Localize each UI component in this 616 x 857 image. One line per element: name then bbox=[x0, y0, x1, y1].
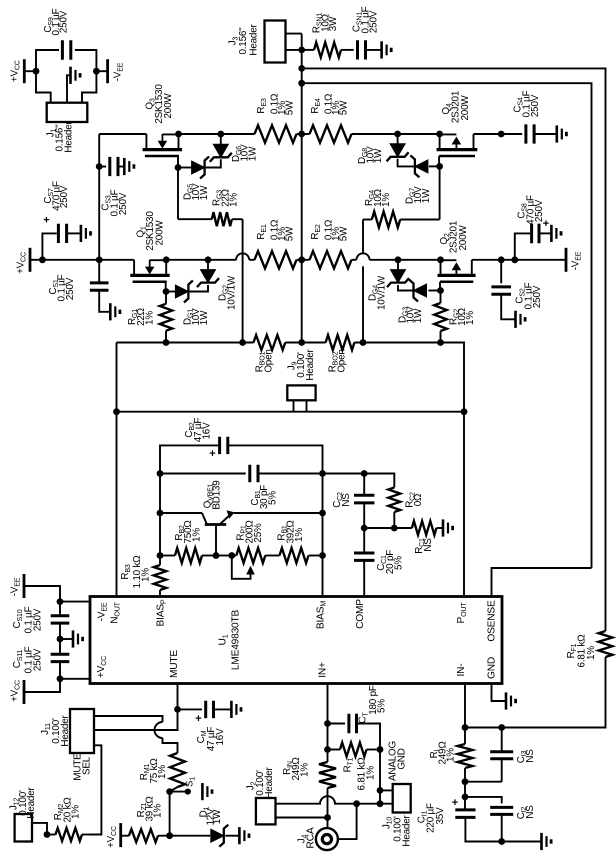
resistor RG2 bbox=[440, 291, 442, 304]
wire DG3-DG4 link bbox=[398, 285, 414, 291]
svg-text:250V: 250V bbox=[33, 648, 44, 671]
svg-text:0Ω: 0Ω bbox=[413, 494, 424, 506]
node CS2 column bbox=[498, 256, 505, 263]
node RC2 bottom bbox=[391, 525, 398, 532]
svg-text:NS: NS bbox=[423, 538, 434, 552]
wire J11 pin3 to RM2 bbox=[90, 745, 101, 834]
node RM1 bottom bbox=[166, 788, 173, 795]
capacitor CS9 bbox=[62, 40, 70, 60]
capacitor CS3 bbox=[110, 157, 118, 176]
svg-text:Header: Header bbox=[26, 787, 37, 819]
ground CI row bbox=[542, 833, 552, 850]
node +VCC/CS9 left bbox=[33, 68, 40, 75]
svg-text:1%: 1% bbox=[294, 528, 305, 542]
capacitor CS8 470uF bbox=[532, 224, 539, 244]
node Q4 gate / DG7 bbox=[436, 163, 443, 170]
node -VEE/CS9 right bbox=[93, 68, 100, 75]
svg-text:Header: Header bbox=[402, 815, 413, 847]
node feedback/IN- bbox=[462, 724, 469, 731]
svg-text:+: + bbox=[209, 448, 215, 460]
power terminal +VCC (rail) bbox=[29, 248, 32, 272]
capacitor CS1 bbox=[90, 283, 109, 290]
resistor RB3 1.10k bbox=[159, 556, 161, 566]
ground CS7 bbox=[81, 225, 91, 242]
header J9 bbox=[287, 385, 315, 400]
resistor RB2 750ohm bbox=[160, 555, 175, 557]
zener DG8 bbox=[387, 144, 409, 162]
wire Q2 drain to -VEE bbox=[472, 259, 566, 261]
wire RCA sleeve return bbox=[338, 804, 357, 839]
ground CS4 bbox=[557, 125, 567, 142]
wire J2 lower stub bbox=[276, 817, 328, 819]
wire RG3 column to bias rail bbox=[242, 219, 244, 342]
node gate column bottom bbox=[360, 339, 367, 346]
svg-text:Open: Open bbox=[337, 349, 348, 372]
svg-text:250V: 250V bbox=[59, 185, 70, 208]
wire comp row bbox=[364, 527, 412, 529]
connector J4 RCA bbox=[316, 828, 338, 850]
wire mid to ground bbox=[60, 638, 73, 640]
node output RE3/RE4 bbox=[298, 131, 305, 138]
svg-text:200W: 200W bbox=[458, 225, 469, 251]
switch S1 bbox=[170, 791, 186, 793]
wire J1 pin1 bbox=[36, 71, 51, 103]
header J1 bbox=[47, 103, 88, 122]
svg-text:25%: 25% bbox=[253, 523, 264, 543]
wire Q3 source to RE3 bbox=[179, 133, 255, 135]
wire J10 upper stub bbox=[380, 789, 393, 791]
node CS8 tap bbox=[511, 256, 518, 263]
wire CI3 bottom row bbox=[465, 781, 502, 783]
node bias rail center bbox=[298, 339, 305, 346]
potentiometer RP1 200ohm bbox=[232, 555, 237, 557]
wire output column bbox=[301, 34, 303, 343]
capacitor CS7 470uF bbox=[58, 224, 66, 243]
node CC2 top bbox=[361, 470, 368, 477]
svg-text:GND: GND bbox=[487, 657, 498, 679]
transistor Q1 2SK1530 bbox=[130, 260, 169, 282]
node +VCC pin bbox=[57, 675, 64, 682]
resistor RBO2 Open bbox=[302, 342, 326, 344]
wire CS3/Q3 drain column bbox=[98, 134, 100, 260]
wire CB1 row left bbox=[160, 473, 246, 475]
wire RI to CI1 node bbox=[464, 782, 466, 797]
wire BIASP column upper bbox=[160, 445, 220, 555]
node RG3 column bottom bbox=[239, 339, 246, 346]
power terminal +VCC (mute) bbox=[119, 823, 122, 847]
svg-text:1%: 1% bbox=[141, 568, 152, 582]
resistor RSN1 10ohm 3W bbox=[302, 49, 314, 51]
svg-text:10V/1W: 10V/1W bbox=[377, 275, 388, 310]
wire CB1 row to CC2/RC2 bbox=[323, 474, 395, 488]
node output row1 bbox=[298, 65, 305, 72]
wire IN+ column bbox=[327, 684, 329, 763]
wire CS7 leg bbox=[42, 233, 56, 259]
svg-text:250V: 250V bbox=[59, 10, 70, 33]
wire Q4 drain to CS4 node bbox=[474, 133, 502, 135]
svg-text:250V: 250V bbox=[65, 277, 76, 300]
node RT1 right bbox=[377, 746, 384, 753]
svg-text:250V: 250V bbox=[369, 10, 380, 33]
wire analog-gnd column bbox=[379, 750, 381, 804]
svg-text:1W: 1W bbox=[199, 310, 210, 325]
wire CC1 to COMP pin bbox=[363, 560, 365, 596]
wire J3 pin1 stub bbox=[286, 33, 302, 35]
wire CB1 row right bbox=[258, 473, 323, 475]
capacitor CS10 bbox=[59, 602, 61, 616]
svg-text:250V: 250V bbox=[532, 285, 543, 308]
transistor Q2 2SJ201 bbox=[438, 260, 476, 282]
node +VCC/CS1 column bbox=[96, 256, 103, 263]
svg-text:1%: 1% bbox=[586, 646, 597, 660]
wire CS2 leg bbox=[500, 260, 502, 284]
wire QVBE1 emitter row bbox=[234, 512, 323, 514]
capacitor CB1 30pF bbox=[250, 465, 258, 482]
svg-text:1%: 1% bbox=[366, 766, 377, 780]
wire Q3 drain feed bbox=[99, 133, 146, 135]
wire CS1 to ground bbox=[99, 290, 110, 312]
svg-text:35V: 35V bbox=[435, 807, 446, 825]
zener DG3 bbox=[428, 290, 440, 292]
wire CT to column right bbox=[357, 724, 380, 750]
transistor QVBE1 BD139 bbox=[160, 510, 235, 555]
node POUT rail bbox=[461, 408, 468, 415]
wire DG7-DG8 link bbox=[398, 159, 415, 167]
node RG2 bottom bbox=[437, 339, 444, 346]
zener DG5 bbox=[178, 167, 192, 169]
svg-text:BD139: BD139 bbox=[212, 480, 223, 510]
node CS3 tap bbox=[96, 163, 103, 170]
header J12 bbox=[15, 814, 32, 842]
svg-text:+: + bbox=[452, 797, 458, 809]
node CS4 column top bbox=[498, 131, 505, 138]
wire CS2 to ground bbox=[501, 294, 515, 319]
wire CT row bbox=[328, 723, 346, 725]
wire Q3 gate lead bbox=[177, 156, 179, 168]
wire OSENSE bbox=[492, 568, 592, 597]
svg-text:1%: 1% bbox=[71, 805, 82, 819]
wire output row1 to outer rail bbox=[302, 68, 606, 631]
svg-text:5%: 5% bbox=[394, 556, 405, 570]
svg-text:1%: 1% bbox=[300, 763, 311, 777]
node output RE1/RE2 bbox=[298, 256, 305, 263]
wire NOUT column bbox=[116, 343, 118, 597]
svg-text:250V: 250V bbox=[118, 192, 129, 215]
wire Q1 gate lead bbox=[165, 282, 167, 292]
power terminal +VCC (J1 cluster) bbox=[23, 59, 26, 83]
svg-text:1%: 1% bbox=[229, 193, 240, 207]
svg-text:1%: 1% bbox=[145, 311, 156, 325]
wire CS11 to +VCC node bbox=[24, 662, 60, 692]
ground CS8 bbox=[551, 225, 561, 242]
svg-text:1%: 1% bbox=[446, 748, 457, 762]
node DG2 top bbox=[205, 256, 212, 263]
wire CS3 leg bbox=[99, 166, 106, 168]
node emitter/BIASM bbox=[319, 510, 326, 517]
svg-text:1%: 1% bbox=[381, 193, 392, 207]
zener D1 12V bbox=[170, 835, 211, 837]
wire RE4 to Q4 bbox=[352, 133, 440, 135]
svg-text:1W: 1W bbox=[421, 188, 432, 203]
resistor RT1 6.81k bbox=[328, 749, 341, 751]
node CB1 right / BIASM bbox=[319, 470, 326, 477]
wire DG5-DG6 link bbox=[205, 159, 221, 167]
wire CSN1 to ground bbox=[366, 49, 382, 51]
zener DG6 bbox=[210, 144, 232, 162]
resistor RG3 bbox=[178, 218, 212, 220]
wire J1 pin3 bbox=[82, 71, 96, 103]
wire J2 upper stub bbox=[276, 803, 322, 805]
node J10 upper bbox=[377, 787, 384, 794]
wire Q3 gate column bbox=[177, 168, 179, 220]
hop RE1 row over RG3 column bbox=[236, 253, 249, 259]
header J11 bbox=[70, 709, 94, 753]
node CB1 left bbox=[157, 470, 164, 477]
svg-text:Header: Header bbox=[249, 24, 260, 56]
wire -VEE stub bbox=[96, 70, 107, 72]
wire GND pin bbox=[492, 684, 507, 702]
node RI bottom bbox=[462, 778, 469, 785]
node supply mid bbox=[57, 636, 64, 643]
resistor RM2 20k bbox=[56, 828, 83, 841]
resistor RIN 249ohm bbox=[319, 762, 336, 788]
node Q2 source bbox=[437, 256, 444, 263]
resistor RG1 bbox=[165, 292, 167, 304]
header J2 bbox=[256, 798, 276, 824]
svg-text:COMP: COMP bbox=[355, 599, 366, 629]
ground RC1 bbox=[443, 519, 453, 536]
power terminal +VCC (U1) bbox=[23, 680, 26, 704]
svg-text:1%: 1% bbox=[465, 311, 476, 325]
wire CS7 to ground bbox=[67, 232, 81, 234]
capacitor CC1 20pF bbox=[363, 528, 365, 553]
node MUTE/CM bbox=[174, 706, 181, 713]
ground D1 bbox=[239, 827, 249, 844]
capacitor CC2 NS bbox=[363, 474, 365, 496]
svg-text:SEL: SEL bbox=[82, 756, 93, 775]
svg-text:1%: 1% bbox=[157, 765, 168, 779]
header J3 bbox=[265, 21, 286, 63]
wire MUTE pin column bbox=[94, 684, 178, 731]
resistor RC1 NS bbox=[412, 521, 437, 535]
node -VEE pin bbox=[57, 598, 64, 605]
wire J3 pin2 stub bbox=[286, 49, 302, 51]
ground CS3 bbox=[124, 158, 134, 175]
wire Q4 gate lead bbox=[438, 156, 440, 166]
wiper RP1 bbox=[232, 556, 251, 579]
svg-text:Header: Header bbox=[60, 715, 71, 747]
wire +VCC rail bbox=[30, 259, 134, 261]
wire CB2 to BIASM column bbox=[228, 445, 323, 596]
wire CI2 top row bbox=[465, 797, 502, 804]
node CC1/CC2 junction bbox=[361, 525, 368, 532]
node RT1 left bbox=[324, 746, 331, 753]
svg-text:5W: 5W bbox=[285, 226, 296, 241]
resistor RBO1 Open bbox=[254, 335, 286, 350]
ground U1 GND bbox=[506, 692, 516, 709]
wire CS9 left leg bbox=[36, 50, 59, 71]
header J10 bbox=[393, 784, 411, 813]
svg-text:RCA: RCA bbox=[306, 827, 317, 849]
node Q3 gate / DG5 bbox=[175, 164, 182, 171]
node CS7 tap bbox=[39, 256, 46, 263]
node J2/RCA pin bbox=[324, 814, 331, 821]
ground (J1 cluster) bbox=[71, 67, 81, 84]
resistor RE1 0.1ohm bbox=[255, 251, 297, 268]
power terminal -VEE (J1 cluster) bbox=[106, 59, 109, 83]
capacitor CI2 NS bbox=[490, 807, 513, 814]
node CI1 top bbox=[462, 794, 469, 801]
resistor RC2 0ohm bbox=[388, 488, 400, 513]
svg-text:+: + bbox=[43, 215, 49, 227]
resistor RM1 75k bbox=[170, 753, 185, 787]
wire RF1 to feedback row bbox=[465, 657, 606, 728]
svg-text:Header: Header bbox=[64, 121, 75, 153]
resistor RE2 0.1ohm bbox=[302, 259, 310, 261]
wire NOUT-POUT rail bbox=[117, 411, 465, 413]
wire RE2 to Q2 bbox=[370, 259, 441, 261]
wire gate column right bbox=[362, 220, 364, 254]
wire -VEE pin bbox=[60, 601, 90, 603]
resistor RZ1 39k bbox=[121, 835, 129, 837]
ground CS10/CS11 bbox=[73, 630, 83, 647]
svg-text:1%: 1% bbox=[153, 804, 164, 818]
svg-text:NS: NS bbox=[525, 749, 536, 763]
wire J11 pin1 to RM1 bbox=[94, 716, 163, 722]
node Q1 gate / DG1 / RG1 bbox=[163, 288, 170, 295]
svg-text:250V: 250V bbox=[530, 94, 541, 117]
power terminal -VEE (U1) bbox=[23, 574, 26, 598]
wire CS9 right leg bbox=[75, 50, 97, 71]
svg-text:+: + bbox=[195, 713, 201, 725]
wire RM1 node to RZ1 row bbox=[169, 792, 171, 836]
zener DG1 bbox=[166, 291, 175, 293]
node J12/RM2 bbox=[44, 831, 51, 838]
svg-text:1W: 1W bbox=[413, 308, 424, 323]
capacitor CM 47uF bbox=[178, 708, 203, 710]
capacitor CS11 bbox=[51, 654, 70, 661]
wire +VCC pin bbox=[60, 678, 90, 680]
svg-text:MUTE: MUTE bbox=[169, 650, 180, 678]
svg-text:3W: 3W bbox=[328, 16, 339, 31]
capacitor CS4 bbox=[501, 133, 522, 135]
node J10 lower bbox=[377, 800, 384, 807]
node RCA sleeve bbox=[353, 800, 360, 807]
svg-text:5%: 5% bbox=[377, 699, 388, 713]
capacitor CI3 NS bbox=[501, 728, 503, 752]
ground CSN1 bbox=[382, 41, 392, 58]
svg-text:IN-: IN- bbox=[456, 664, 467, 677]
svg-text:250V: 250V bbox=[534, 199, 545, 222]
transistor Q4 2SJ201 bbox=[437, 134, 478, 156]
wire Q2 gate lead bbox=[439, 282, 441, 291]
svg-text:10V/1W: 10V/1W bbox=[227, 275, 238, 310]
svg-text:16V: 16V bbox=[215, 728, 226, 746]
power terminal -VEE (right) bbox=[565, 248, 568, 272]
svg-text:200W: 200W bbox=[163, 93, 174, 119]
wire IN- pin bbox=[464, 684, 466, 728]
resistor RI 249ohm bbox=[464, 728, 466, 745]
svg-text:5%: 5% bbox=[268, 491, 279, 505]
ground CS1 bbox=[110, 303, 120, 320]
wire J10 lower stub / RCA row bbox=[357, 803, 393, 805]
wire CS8 leg bbox=[515, 233, 532, 259]
svg-text:GND: GND bbox=[397, 748, 408, 769]
op-amp U1 LME49830TB bbox=[90, 597, 502, 684]
node Q1 source bbox=[163, 256, 170, 263]
resistor RE4 0.1ohm bbox=[302, 133, 310, 135]
wire bias rail right bbox=[354, 343, 464, 412]
svg-text:1%: 1% bbox=[192, 528, 203, 542]
node QVBE1 base bbox=[213, 552, 220, 559]
hop RE2 row over gate column bbox=[357, 253, 370, 259]
hop J11 pin1 over pin2 bbox=[155, 722, 163, 738]
wire output row2 to OSENSE rail bbox=[302, 83, 592, 568]
wire J1 pin2 to ground bbox=[67, 75, 71, 102]
resistor RG4 bbox=[400, 219, 439, 221]
wire -VEE to U1 bbox=[24, 586, 60, 602]
node DG4 top bbox=[395, 256, 402, 263]
node output row2 bbox=[298, 80, 305, 87]
svg-text:5W: 5W bbox=[285, 100, 296, 115]
node NOUT rail bbox=[113, 408, 120, 415]
wire base to RP1 bbox=[216, 555, 232, 557]
svg-text:NS: NS bbox=[525, 805, 536, 819]
svg-text:IN+: IN+ bbox=[318, 662, 329, 678]
svg-text:250V: 250V bbox=[33, 608, 44, 631]
svg-text:1W: 1W bbox=[248, 146, 259, 161]
node RB2 left bbox=[157, 552, 164, 559]
wire CS1 leg bbox=[98, 260, 100, 283]
capacitor CT 180pF bbox=[349, 714, 357, 734]
node DG6 top / RE3 left bbox=[217, 131, 224, 138]
node QVBE1 collector bbox=[157, 510, 164, 517]
transistor Q3 2SK1530 bbox=[143, 134, 182, 156]
svg-text:OSENSE: OSENSE bbox=[487, 600, 498, 642]
zener DG4 bbox=[387, 270, 409, 288]
svg-text:Open: Open bbox=[264, 349, 275, 372]
node RZ1/D1 bbox=[166, 832, 173, 839]
node RP1 left bbox=[228, 552, 235, 559]
svg-text:Header: Header bbox=[264, 767, 275, 799]
wire +VCC stub to node bbox=[24, 70, 36, 72]
wire CS8 to ground bbox=[539, 232, 551, 234]
wire J12 stub bbox=[32, 823, 47, 835]
svg-text:1W: 1W bbox=[212, 809, 223, 824]
ground CM bbox=[231, 701, 241, 718]
wire bias rail left bbox=[117, 342, 254, 344]
node snubber tap bbox=[298, 47, 305, 54]
node DG8 top bbox=[394, 131, 401, 138]
svg-text:1W: 1W bbox=[199, 185, 210, 200]
node CT row bbox=[324, 720, 331, 727]
node Q4 source bbox=[436, 131, 443, 138]
zener DG7 bbox=[429, 165, 440, 167]
svg-text:LME49830TB: LME49830TB bbox=[231, 609, 242, 670]
wire CS3 to ground bbox=[118, 166, 124, 168]
svg-text:16V: 16V bbox=[202, 422, 213, 440]
svg-text:1W: 1W bbox=[373, 148, 384, 163]
wire J9 pin stubs bbox=[293, 400, 295, 411]
capacitor CI1 220uF bbox=[464, 797, 466, 810]
wire Q4 gate column to RG4 bbox=[439, 166, 441, 219]
svg-text:5W: 5W bbox=[339, 226, 350, 241]
svg-text:5W: 5W bbox=[339, 100, 350, 115]
hop J2 stub over RIN column bbox=[320, 796, 335, 804]
svg-text:NS: NS bbox=[341, 493, 352, 507]
node RB1 right / BIASM bbox=[319, 552, 326, 559]
capacitor CS2 bbox=[491, 287, 511, 294]
